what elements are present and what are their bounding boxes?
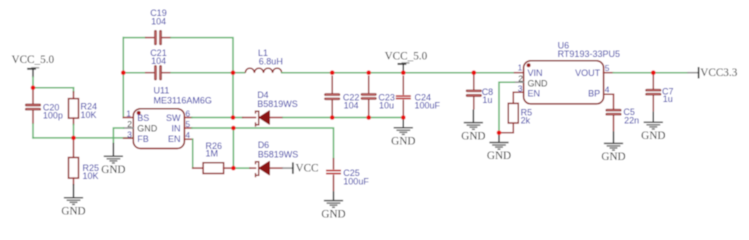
power flag VCC_5.0 (left) [27, 68, 39, 78]
svg-text:FB: FB [137, 134, 149, 144]
lead R24 top [73, 92, 75, 99]
svg-text:100uF: 100uF [343, 176, 369, 186]
wire BP to C5 [604, 94, 614, 96]
svg-text:100p: 100p [43, 111, 63, 121]
stub VCC3.3 netlabel [688, 72, 699, 74]
diode D6 B5819WS [256, 162, 284, 178]
wire C19 left [123, 37, 145, 39]
lead R25 bottom [73, 178, 75, 184]
pin stub U11 pin5 IN [184, 127, 191, 129]
net label VCC3.3 [698, 67, 700, 78]
lead D6 cathode [250, 167, 256, 169]
capacitor C5 [606, 96, 621, 131]
junction IN node [231, 126, 236, 131]
pin stub U11 pin4 EN [184, 138, 192, 140]
wire U11 GND down [113, 128, 123, 143]
wire C19 right to rail [171, 38, 233, 73]
svg-text:EN: EN [168, 134, 181, 144]
ground R25 [64, 184, 83, 204]
junction C24 bottom / GND [401, 115, 406, 120]
svg-text:1u: 1u [482, 95, 492, 105]
capacitor C8 [466, 75, 481, 110]
pin stub U11 pin1 BS [123, 117, 133, 119]
lead D4 cathode [243, 117, 256, 119]
svg-text:GND: GND [391, 135, 415, 147]
svg-text:1u: 1u [663, 94, 673, 104]
svg-text:GND: GND [641, 130, 665, 142]
power flag VCC_5.0 (output) [398, 63, 410, 73]
svg-text:VIN: VIN [528, 68, 543, 78]
junction FB/R24/R25 [71, 136, 76, 141]
lead R24 bottom [73, 118, 75, 124]
wire SW to D4 [233, 117, 243, 119]
svg-text:GND: GND [61, 205, 85, 217]
wire left rail vertical [122, 38, 124, 118]
resistor R24 [69, 99, 79, 119]
wire IN pin to junction [192, 127, 234, 129]
wire R24 to FB node [73, 125, 75, 138]
capacitor C25 [326, 158, 341, 191]
svg-text:4: 4 [605, 85, 610, 95]
wire FB net horizontal [33, 137, 133, 139]
capacitor C23 [361, 76, 376, 118]
svg-text:2k: 2k [521, 115, 531, 125]
svg-text:104: 104 [151, 17, 166, 27]
wire C21 left [123, 72, 145, 74]
svg-text:GND: GND [137, 123, 158, 133]
svg-text:10u: 10u [379, 101, 394, 111]
op-amp U11 ME3116AM6G body [133, 109, 184, 149]
ground R5 [489, 133, 508, 149]
svg-text:GND: GND [601, 151, 625, 163]
svg-text:1: 1 [518, 63, 523, 73]
svg-text:GND: GND [321, 208, 345, 220]
junction C22 bottom [330, 115, 335, 120]
resistor R26 1M [203, 163, 224, 174]
svg-text:10K: 10K [81, 110, 97, 120]
junction left rail / C21 [121, 70, 126, 75]
junction right rail / L1 [231, 70, 236, 75]
inductor L1 6.8uH [245, 68, 281, 73]
svg-text:IN: IN [172, 123, 181, 133]
svg-text:ME3116AM6G: ME3116AM6G [154, 96, 212, 106]
svg-text:1M: 1M [206, 148, 219, 158]
junction R5/GND [497, 131, 502, 136]
wire EN down [192, 139, 194, 168]
ground U11 [104, 143, 123, 163]
junction C23 top [366, 70, 371, 75]
svg-text:GND: GND [101, 164, 125, 176]
wire power stem to node [32, 77, 34, 88]
wire VOUT rail [613, 72, 688, 74]
resistor R25 [69, 158, 79, 179]
lead R26 right [224, 167, 234, 169]
net label VCC [292, 162, 294, 173]
wire IN to C25 [233, 128, 333, 158]
pin stub U6 pin1 VIN [515, 72, 524, 74]
junction R26/D6/IN [231, 166, 236, 171]
svg-text:U11: U11 [154, 86, 170, 96]
svg-text:GND: GND [528, 79, 549, 89]
junction C23 bottom [366, 115, 371, 120]
junction C8 top [472, 70, 477, 75]
wire rail to L1 [233, 72, 245, 74]
wire SW rail vertical [232, 73, 234, 118]
wire down to R24 [73, 88, 75, 92]
svg-text:GND: GND [487, 150, 511, 162]
wire EN to R5 [513, 92, 523, 103]
wire ground rail [283, 117, 403, 119]
pin stub U6 pin2 GND [514, 81, 523, 83]
svg-text:B5819WS: B5819WS [258, 150, 299, 160]
svg-text:B5819WS: B5819WS [257, 99, 298, 109]
svg-text:BP: BP [588, 89, 600, 99]
svg-text:104: 104 [151, 56, 166, 66]
ground C7 [644, 112, 663, 129]
svg-text:VCC_5.0: VCC_5.0 [12, 54, 55, 66]
wire SW pin to junction [192, 117, 233, 119]
svg-text:104: 104 [344, 101, 359, 111]
svg-text:VCC: VCC [296, 163, 319, 175]
svg-text:4: 4 [185, 130, 190, 140]
lead R5 bottom [499, 123, 513, 133]
wire to D6 [233, 167, 250, 169]
capacitor C24 [396, 76, 411, 118]
svg-text:6.8uH: 6.8uH [259, 56, 283, 66]
junction C24 top / power [401, 70, 406, 75]
svg-text:5: 5 [605, 63, 610, 73]
svg-text:VCC_5.0: VCC_5.0 [385, 51, 428, 63]
junction SW node [231, 115, 236, 120]
lead R26 left [193, 167, 203, 169]
wire IN down to R26/D6 [232, 128, 234, 168]
diode D4 B5819WS [256, 111, 284, 127]
svg-text:SW: SW [166, 113, 181, 123]
ground C5 [604, 131, 623, 150]
svg-text:EN: EN [528, 89, 541, 99]
capacitor C7 [646, 75, 661, 112]
svg-text:1: 1 [126, 109, 131, 119]
junction C22 top [330, 70, 335, 75]
capacitor C21 [145, 66, 171, 80]
resistor R5 2k [508, 103, 518, 123]
svg-text:RT9193-33PU5: RT9193-33PU5 [558, 49, 620, 59]
wire node to R24 top [33, 87, 74, 89]
pin stub U6 pin5 VOUT [604, 72, 614, 74]
capacitor C19 [145, 31, 171, 45]
ground C8 [464, 110, 483, 130]
wire C21 right [171, 72, 233, 74]
pin stub U11 pin6 SW [184, 117, 191, 119]
svg-text:100uF: 100uF [415, 101, 441, 111]
junction C7 top [651, 70, 656, 75]
svg-text:GND: GND [461, 130, 485, 142]
svg-text:VCC3.3: VCC3.3 [700, 67, 737, 79]
wire output rail VCC_5.0 [282, 72, 515, 74]
wire C20 bottom down [32, 124, 34, 138]
pin stub U11 pin3 FB [124, 137, 134, 139]
junction node VCC_5.0/C20/R24 [31, 85, 36, 90]
pin stub U11 pin2 GND [124, 127, 134, 129]
svg-text:10K: 10K [83, 171, 99, 181]
svg-text:BS: BS [137, 113, 149, 123]
capacitor C20 [26, 88, 41, 124]
capacitor C22 [325, 76, 340, 118]
stub VCC netlabel [283, 167, 293, 169]
wire U6 GND down [499, 82, 514, 133]
svg-text:VOUT: VOUT [575, 68, 601, 78]
svg-text:22n: 22n [624, 116, 639, 126]
voltage regulator U6 RT9193-33PU5 body [524, 61, 604, 104]
ground C25 [324, 191, 343, 207]
ground output caps [394, 118, 413, 135]
lead R25 top [73, 138, 75, 158]
